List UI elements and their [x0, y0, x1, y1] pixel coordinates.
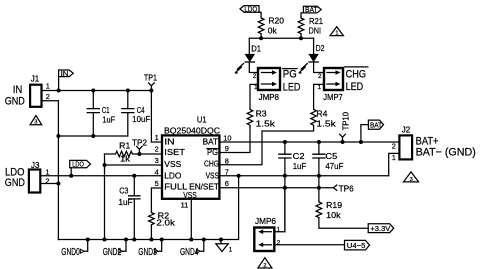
note triangle 1 [330, 27, 343, 37]
svg-text:3: 3 [155, 156, 159, 165]
node +3.3V flag [368, 224, 394, 233]
wire top LED link rail [249, 37, 313, 39]
svg-text:10k: 10k [326, 211, 342, 220]
svg-text:47uF: 47uF [325, 162, 343, 171]
svg-text:8: 8 [225, 156, 229, 165]
svg-text:1uF: 1uF [118, 198, 132, 207]
wire JMP8 pin1 to R3 top [250, 84, 258, 108]
wire mid ground rail [58, 135, 127, 137]
node BAT flag mid [368, 120, 383, 129]
svg-text:BAT: BAT [305, 5, 318, 14]
note triangle 3 below J1 [30, 116, 42, 126]
wire D2 cathode to JMP7 pin2 [314, 63, 324, 73]
resistor R19 [316, 201, 343, 220]
wire PG net pin9 to R3 [219, 127, 250, 153]
svg-text:1.5k: 1.5k [256, 120, 277, 129]
svg-text:1: 1 [318, 84, 322, 91]
wire ISET row to U1 pin2 [139, 153, 162, 155]
power symbol net triangle 1 [216, 238, 233, 254]
pin 9 stub [225, 144, 229, 153]
connector J1 [5, 74, 50, 107]
node LDO flag top [240, 5, 259, 14]
svg-text:BAT: BAT [370, 121, 382, 130]
node junction VSS rail [237, 174, 241, 178]
node junction VSS row [103, 163, 107, 167]
svg-text:1uF: 1uF [102, 116, 115, 125]
svg-text:2: 2 [263, 263, 266, 269]
svg-text:TP1: TP1 [144, 74, 158, 83]
node junction IN flag [57, 89, 61, 93]
svg-text:1: 1 [392, 153, 396, 162]
wire J2 pin1 to VSS rail [389, 153, 400, 175]
svg-text:1.5k: 1.5k [316, 120, 337, 129]
svg-text:3: 3 [410, 177, 413, 183]
resistor R3 [247, 108, 276, 129]
capacitor C2 [278, 140, 306, 232]
pin 3 stub [155, 156, 159, 165]
svg-text:R3: R3 [256, 109, 268, 118]
svg-text:1k: 1k [120, 155, 131, 164]
svg-text:R21: R21 [309, 17, 324, 26]
svg-text:2: 2 [253, 73, 257, 80]
svg-text:CHG: CHG [204, 160, 219, 169]
wire CHG net pin8 to R4 [219, 126, 313, 165]
svg-text:IN: IN [164, 137, 175, 146]
svg-text:2: 2 [392, 142, 396, 151]
node junction R1 vertical at rail [103, 238, 107, 242]
pin 10 stub [223, 134, 231, 143]
LED D2 [298, 44, 325, 74]
svg-text:1: 1 [155, 133, 159, 142]
node junction LDO flag [69, 174, 73, 178]
svg-text:VSS: VSS [206, 171, 219, 180]
wire LDO flag tail to R20 [259, 12, 261, 17]
svg-text:C3: C3 [119, 186, 129, 195]
svg-text:U1: U1 [197, 116, 207, 125]
wire R19 bottom to 3.3V flag [319, 218, 368, 228]
wire JMP6 pin1 riser [274, 188, 285, 232]
label CHG LED [345, 67, 368, 93]
svg-text:C2: C2 [293, 152, 306, 161]
svg-text:0k: 0k [268, 27, 278, 36]
wire D1 anode drop [248, 38, 250, 54]
note triangle 2 below JMP6 [258, 258, 272, 269]
node U4-5 flag [345, 240, 370, 250]
wire D1 cathode to JMP8 pin2 [249, 63, 258, 73]
svg-text:4: 4 [155, 168, 159, 177]
wire R1 left vertical to VSS and ground [104, 154, 106, 240]
svg-text:GND0: GND0 [61, 247, 80, 258]
svg-text:6: 6 [225, 179, 229, 188]
svg-text:IN: IN [13, 84, 23, 96]
wire BAT flag riser [361, 125, 369, 142]
svg-text:BAT: BAT [203, 137, 219, 146]
wire J3 pin2 [40, 183, 58, 185]
pin name PG with overline [207, 148, 218, 157]
svg-text:BAT− (GND): BAT− (GND) [416, 147, 476, 159]
svg-text:GND: GND [5, 95, 25, 107]
svg-text:11: 11 [181, 201, 189, 210]
svg-text:R1: R1 [119, 142, 131, 151]
svg-text:C4: C4 [137, 106, 145, 115]
svg-text:C1: C1 [102, 106, 110, 115]
svg-text:1: 1 [45, 167, 49, 176]
capacitor C5 [312, 140, 343, 201]
wire BAT rail pin10 to J2 [219, 141, 399, 143]
capacitor C3 [118, 174, 140, 242]
LED D1 [235, 45, 262, 74]
wire JMP6 pin2 to U4-5 flag [274, 244, 344, 246]
connector J3 [5, 161, 50, 193]
power symbol GND3 [138, 238, 163, 258]
svg-text:GND2: GND2 [103, 247, 122, 258]
svg-text:+3.3V: +3.3V [370, 224, 390, 233]
svg-text:TP2: TP2 [132, 139, 148, 148]
svg-text:IN: IN [61, 69, 69, 78]
wire pin5 FULL down to R2 [151, 188, 162, 212]
op chip U1 BQ25040DQC [162, 116, 220, 199]
svg-text:9: 9 [225, 144, 229, 153]
wire EN/SET row pin6 [219, 187, 333, 189]
svg-text:TP6: TP6 [339, 185, 355, 194]
node junction EN/SET row [283, 186, 287, 190]
resistor R1 [105, 142, 140, 164]
svg-text:J2: J2 [402, 126, 411, 135]
node LDO flag [70, 160, 91, 169]
svg-text:LDO: LDO [72, 160, 84, 169]
pin 1 stub [155, 133, 159, 142]
svg-text:ISET: ISET [164, 148, 185, 157]
wire JMP7 pin1 to R4 top [314, 84, 324, 108]
svg-text:1: 1 [335, 31, 338, 37]
wire VSS rail pin7 [219, 175, 388, 177]
power symbol GND0 [61, 238, 89, 258]
wire J3 pin1 LDO row to U1 pin4 [40, 175, 162, 177]
svg-text:BQ25040DQC: BQ25040DQC [164, 126, 220, 135]
svg-text:VSS: VSS [183, 191, 196, 200]
wire R2 bottom [150, 226, 152, 240]
svg-text:J1: J1 [31, 74, 40, 83]
pin 4 stub [155, 168, 159, 177]
svg-text:1: 1 [254, 84, 258, 91]
svg-text:GND4: GND4 [180, 247, 199, 258]
svg-text:D2: D2 [316, 44, 325, 53]
svg-text:1uF: 1uF [293, 162, 307, 171]
svg-text:C5: C5 [325, 152, 338, 161]
testpoint TP2 [132, 139, 148, 156]
wire pin1 riser into U1 pin 1 [151, 91, 162, 143]
svg-text:2: 2 [155, 145, 159, 154]
wire J1 pin1 to TP1 corner [42, 90, 152, 92]
pin 5 stub [155, 179, 159, 188]
pin 8 stub [225, 156, 229, 165]
svg-text:CHG: CHG [346, 69, 366, 81]
pin 2 stub [155, 145, 159, 154]
svg-text:5: 5 [155, 179, 159, 188]
wire J1 pin2 down the left ground chain [42, 101, 59, 240]
power symbol GND2 [103, 238, 128, 258]
svg-text:JMP7: JMP7 [323, 93, 343, 102]
svg-text:GND3: GND3 [138, 247, 157, 258]
wire R21 bottom [300, 34, 302, 38]
svg-text:GND: GND [5, 177, 25, 189]
svg-text:10uF: 10uF [132, 115, 150, 124]
jumper JMP8 [253, 68, 280, 102]
note triangle 3 near J2 [404, 172, 419, 183]
svg-text:1: 1 [229, 247, 233, 254]
svg-text:DNI: DNI [309, 26, 322, 35]
svg-text:1: 1 [46, 82, 50, 91]
svg-text:PG: PG [207, 148, 218, 157]
svg-text:LDO: LDO [164, 171, 181, 180]
svg-text:R4: R4 [316, 109, 328, 118]
svg-text:JMP8: JMP8 [259, 93, 280, 102]
svg-text:LED: LED [283, 82, 301, 94]
node BAT flag top [303, 5, 321, 14]
svg-text:2: 2 [46, 92, 50, 101]
capacitor C1 [87, 89, 116, 139]
node junction mid rail [56, 134, 60, 138]
svg-text:LDO: LDO [244, 5, 257, 14]
pin 11 stub [181, 199, 194, 242]
svg-text:D1: D1 [251, 45, 261, 54]
wire BAT flag tail to R21 [301, 13, 303, 17]
jumper JMP6 [254, 217, 280, 251]
svg-text:1: 1 [277, 227, 281, 234]
jumper JMP7 [318, 68, 344, 102]
svg-text:U4−5: U4−5 [347, 241, 366, 250]
svg-text:R19: R19 [326, 201, 343, 210]
testpoint TP1 [144, 74, 158, 93]
capacitor C4 [121, 89, 150, 137]
svg-text:10: 10 [223, 134, 231, 143]
resistor R20 [258, 17, 284, 36]
wire IN flag stub [58, 77, 60, 91]
wire bottom ground rail [58, 176, 238, 240]
wire D2 anode drop [313, 38, 315, 54]
svg-text:TP10: TP10 [341, 111, 350, 130]
resistor R4 [311, 108, 337, 129]
node IN flag [59, 69, 74, 78]
testpoint TP6 [333, 185, 354, 194]
resistor R2 [149, 211, 177, 227]
wire LDO flag stub [70, 168, 72, 176]
svg-text:2.0k: 2.0k [156, 219, 176, 228]
node junction J3 gnd [56, 182, 60, 186]
svg-text:PG: PG [283, 69, 297, 81]
svg-text:JMP6: JMP6 [255, 217, 277, 226]
svg-text:VSS: VSS [164, 160, 181, 169]
svg-text:LED: LED [346, 81, 364, 93]
power symbol GND4 [180, 238, 206, 258]
wire VSS pin3 row [105, 164, 163, 166]
pin 6 stub [225, 179, 229, 188]
wire R20 bottom [260, 34, 262, 38]
resistor R21 [298, 17, 323, 35]
connector J2 [392, 126, 476, 162]
label PG LED [283, 69, 301, 94]
svg-text:R20: R20 [268, 17, 284, 26]
svg-text:J3: J3 [31, 161, 40, 170]
testpoint TP10 [340, 111, 351, 144]
svg-text:2: 2 [318, 73, 322, 80]
pin 7 stub [225, 168, 229, 177]
svg-text:3: 3 [34, 120, 37, 126]
